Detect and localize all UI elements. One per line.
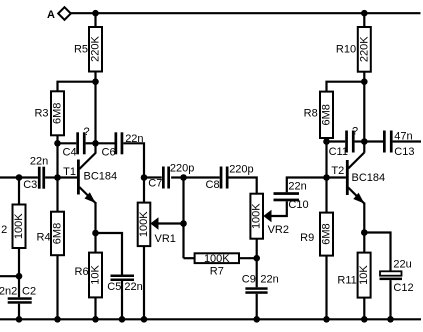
- resistor R10: [336, 13, 371, 153]
- svg-text:47n: 47n: [394, 131, 412, 143]
- node junction R5/R3: [92, 78, 99, 85]
- node rail C2: [16, 316, 23, 323]
- capacitor C6: [96, 132, 145, 202]
- wire stub left from R2 bottom: [0, 275, 19, 277]
- svg-text:2: 2: [1, 224, 7, 236]
- capacitor C5: [96, 233, 143, 319]
- svg-text:22n: 22n: [30, 156, 48, 168]
- svg-text:22n: 22n: [125, 133, 143, 145]
- svg-text:T1: T1: [63, 166, 76, 178]
- svg-text:22u: 22u: [393, 259, 411, 271]
- svg-text:?: ?: [84, 126, 90, 138]
- svg-text:10K: 10K: [90, 265, 102, 285]
- node junction C11 left: [323, 138, 330, 145]
- capacitor C9: [242, 258, 279, 319]
- resistor R2: [1, 178, 25, 298]
- svg-text:100K: 100K: [138, 211, 150, 237]
- svg-text:T2: T2: [331, 165, 344, 177]
- svg-text:2n2: 2n2: [0, 286, 17, 298]
- svg-text:C7: C7: [148, 178, 162, 190]
- svg-text:220K: 220K: [358, 36, 370, 62]
- node junction C4 left: [54, 140, 61, 147]
- svg-text:C2: C2: [22, 286, 36, 298]
- potentiometer VR1: [138, 203, 184, 320]
- potentiometer VR2: [250, 194, 289, 259]
- svg-text:R4: R4: [37, 232, 51, 244]
- svg-text:BC184: BC184: [84, 171, 118, 183]
- svg-text:100K: 100K: [204, 253, 230, 265]
- node rail R4: [54, 316, 61, 323]
- resistor R11: [337, 233, 370, 320]
- resistor R7: [195, 253, 257, 278]
- node junction wiper VR1: [180, 220, 187, 227]
- svg-text:6M8: 6M8: [321, 104, 333, 125]
- capacitor C2: [0, 286, 36, 320]
- svg-text:22n: 22n: [260, 274, 278, 286]
- svg-text:C4: C4: [63, 147, 77, 159]
- svg-text:220p: 220p: [170, 163, 194, 175]
- svg-text:C3: C3: [23, 179, 37, 191]
- resistor R8: [304, 82, 365, 178]
- svg-text:6M8: 6M8: [52, 103, 64, 124]
- svg-text:C9: C9: [242, 274, 256, 286]
- svg-text:R9: R9: [300, 232, 314, 244]
- wire input left: [0, 176, 38, 178]
- svg-text:A: A: [47, 9, 55, 21]
- resistor R3: [34, 91, 64, 135]
- capacitor C12 electrolytic: [364, 233, 413, 320]
- resistor R5: [74, 13, 102, 71]
- svg-text:R7: R7: [210, 266, 224, 278]
- node junction top of R5: [92, 10, 99, 17]
- node junction R7/VR2/C9: [253, 255, 260, 262]
- svg-text:C11: C11: [329, 146, 348, 158]
- resistor R6: [75, 233, 102, 319]
- capacitor C7: [144, 163, 194, 190]
- node rail R9: [323, 316, 330, 323]
- svg-text:VR1: VR1: [155, 233, 176, 245]
- node junction C7 left / VR1 top: [141, 174, 148, 181]
- wire wiper column: [182, 178, 184, 259]
- capacitor C13: [364, 131, 421, 159]
- svg-text:C13: C13: [394, 146, 414, 158]
- svg-text:R3: R3: [34, 108, 48, 120]
- resistor R9: [300, 178, 333, 320]
- svg-text:22n: 22n: [288, 180, 306, 192]
- wire R3 top horizontal: [58, 82, 96, 92]
- svg-text:R11: R11: [337, 275, 356, 287]
- node junction collector T1: [92, 140, 99, 147]
- wire R5 bottom to collector node: [94, 72, 96, 154]
- capacitor C11: [327, 126, 365, 159]
- svg-text:220p: 220p: [229, 164, 253, 176]
- transistor Q T1: [58, 153, 118, 233]
- node rail C5: [119, 316, 126, 323]
- svg-text:R5: R5: [74, 44, 88, 56]
- node rail C12: [387, 316, 394, 323]
- node junction R8/R10: [361, 78, 368, 85]
- node junction top of R10: [361, 10, 368, 17]
- svg-text:C8: C8: [206, 179, 220, 191]
- wire R3 bottom to base node: [56, 135, 58, 177]
- transistor Q T2: [327, 153, 386, 233]
- node junction T1 base: [54, 174, 61, 181]
- capacitor C8: [184, 164, 257, 194]
- svg-text:C5: C5: [107, 281, 121, 293]
- node rail R6: [92, 316, 99, 323]
- svg-text:220K: 220K: [90, 35, 102, 61]
- node junction R2 top: [16, 174, 23, 181]
- resistor R4: [37, 178, 64, 320]
- node rail R11: [361, 316, 368, 323]
- svg-text:22n: 22n: [124, 281, 142, 293]
- node junction T2 collector: [361, 138, 368, 145]
- svg-text:R10: R10: [336, 44, 356, 56]
- svg-text:VR2: VR2: [268, 224, 289, 236]
- svg-text:100K: 100K: [13, 213, 25, 239]
- svg-text:C10: C10: [288, 199, 308, 211]
- node junction T2 emitter: [361, 229, 368, 236]
- wire top supply rail: [71, 12, 421, 14]
- svg-text:10K: 10K: [358, 265, 370, 285]
- svg-text:C12: C12: [393, 282, 413, 294]
- svg-text:100K: 100K: [251, 203, 263, 229]
- node rail VR1: [141, 316, 148, 323]
- svg-text:6M8: 6M8: [321, 223, 333, 244]
- wire bottom ground rail: [0, 318, 421, 320]
- svg-text:?: ?: [352, 126, 358, 138]
- capacitor C10: [274, 178, 327, 212]
- node rail C9: [253, 316, 260, 323]
- capacitor C3: [23, 156, 57, 192]
- node A terminal: [47, 7, 71, 21]
- svg-text:BC184: BC184: [352, 172, 386, 184]
- wire to R7 left: [184, 257, 195, 259]
- node junction T2 base: [323, 174, 330, 181]
- node junction C7/C8: [180, 174, 187, 181]
- svg-text:R8: R8: [304, 108, 318, 120]
- node junction R2 bottom: [16, 273, 23, 280]
- svg-text:R6: R6: [75, 266, 89, 278]
- capacitor C4: [58, 126, 96, 159]
- svg-text:6M8: 6M8: [52, 223, 64, 244]
- svg-text:C6: C6: [102, 147, 116, 159]
- node junction T1 emitter: [92, 230, 99, 237]
